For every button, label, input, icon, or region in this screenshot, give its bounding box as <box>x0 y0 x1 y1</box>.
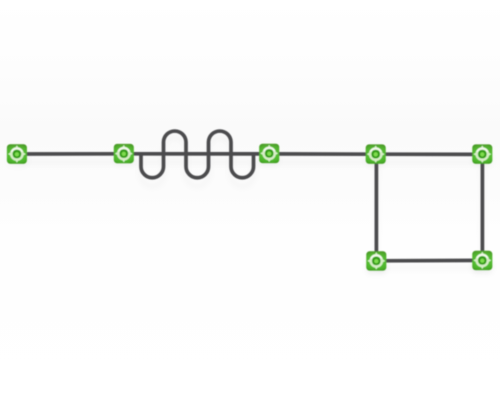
wire W4: node N4 to node N5 <box>376 152 482 156</box>
node N7 (green connector cube) <box>472 251 492 270</box>
wire W5: left vertical of loop N4-N6 <box>375 154 379 261</box>
node N4 (green connector cube) <box>366 144 386 163</box>
wire W7: bottom of loop N6-N7 <box>376 259 482 263</box>
node N2 (green connector cube) <box>114 144 134 163</box>
node N5 (green connector cube) <box>472 144 492 163</box>
wire W3: node N3 to node N4 <box>269 152 376 156</box>
node N3 (green connector cube) <box>259 144 279 163</box>
node N6 (green connector cube) <box>366 251 386 270</box>
wire W6: right vertical of loop N5-N7 <box>481 154 485 261</box>
wire W2: straight bypass node N2 to node N3 <box>124 152 269 156</box>
node N1 (green connector cube) <box>7 144 27 163</box>
wire W1: node N1 to node N2 <box>17 152 124 156</box>
serpentine meander wire between N2 and N3 <box>141 131 254 178</box>
soft cast shadows <box>17 138 483 268</box>
